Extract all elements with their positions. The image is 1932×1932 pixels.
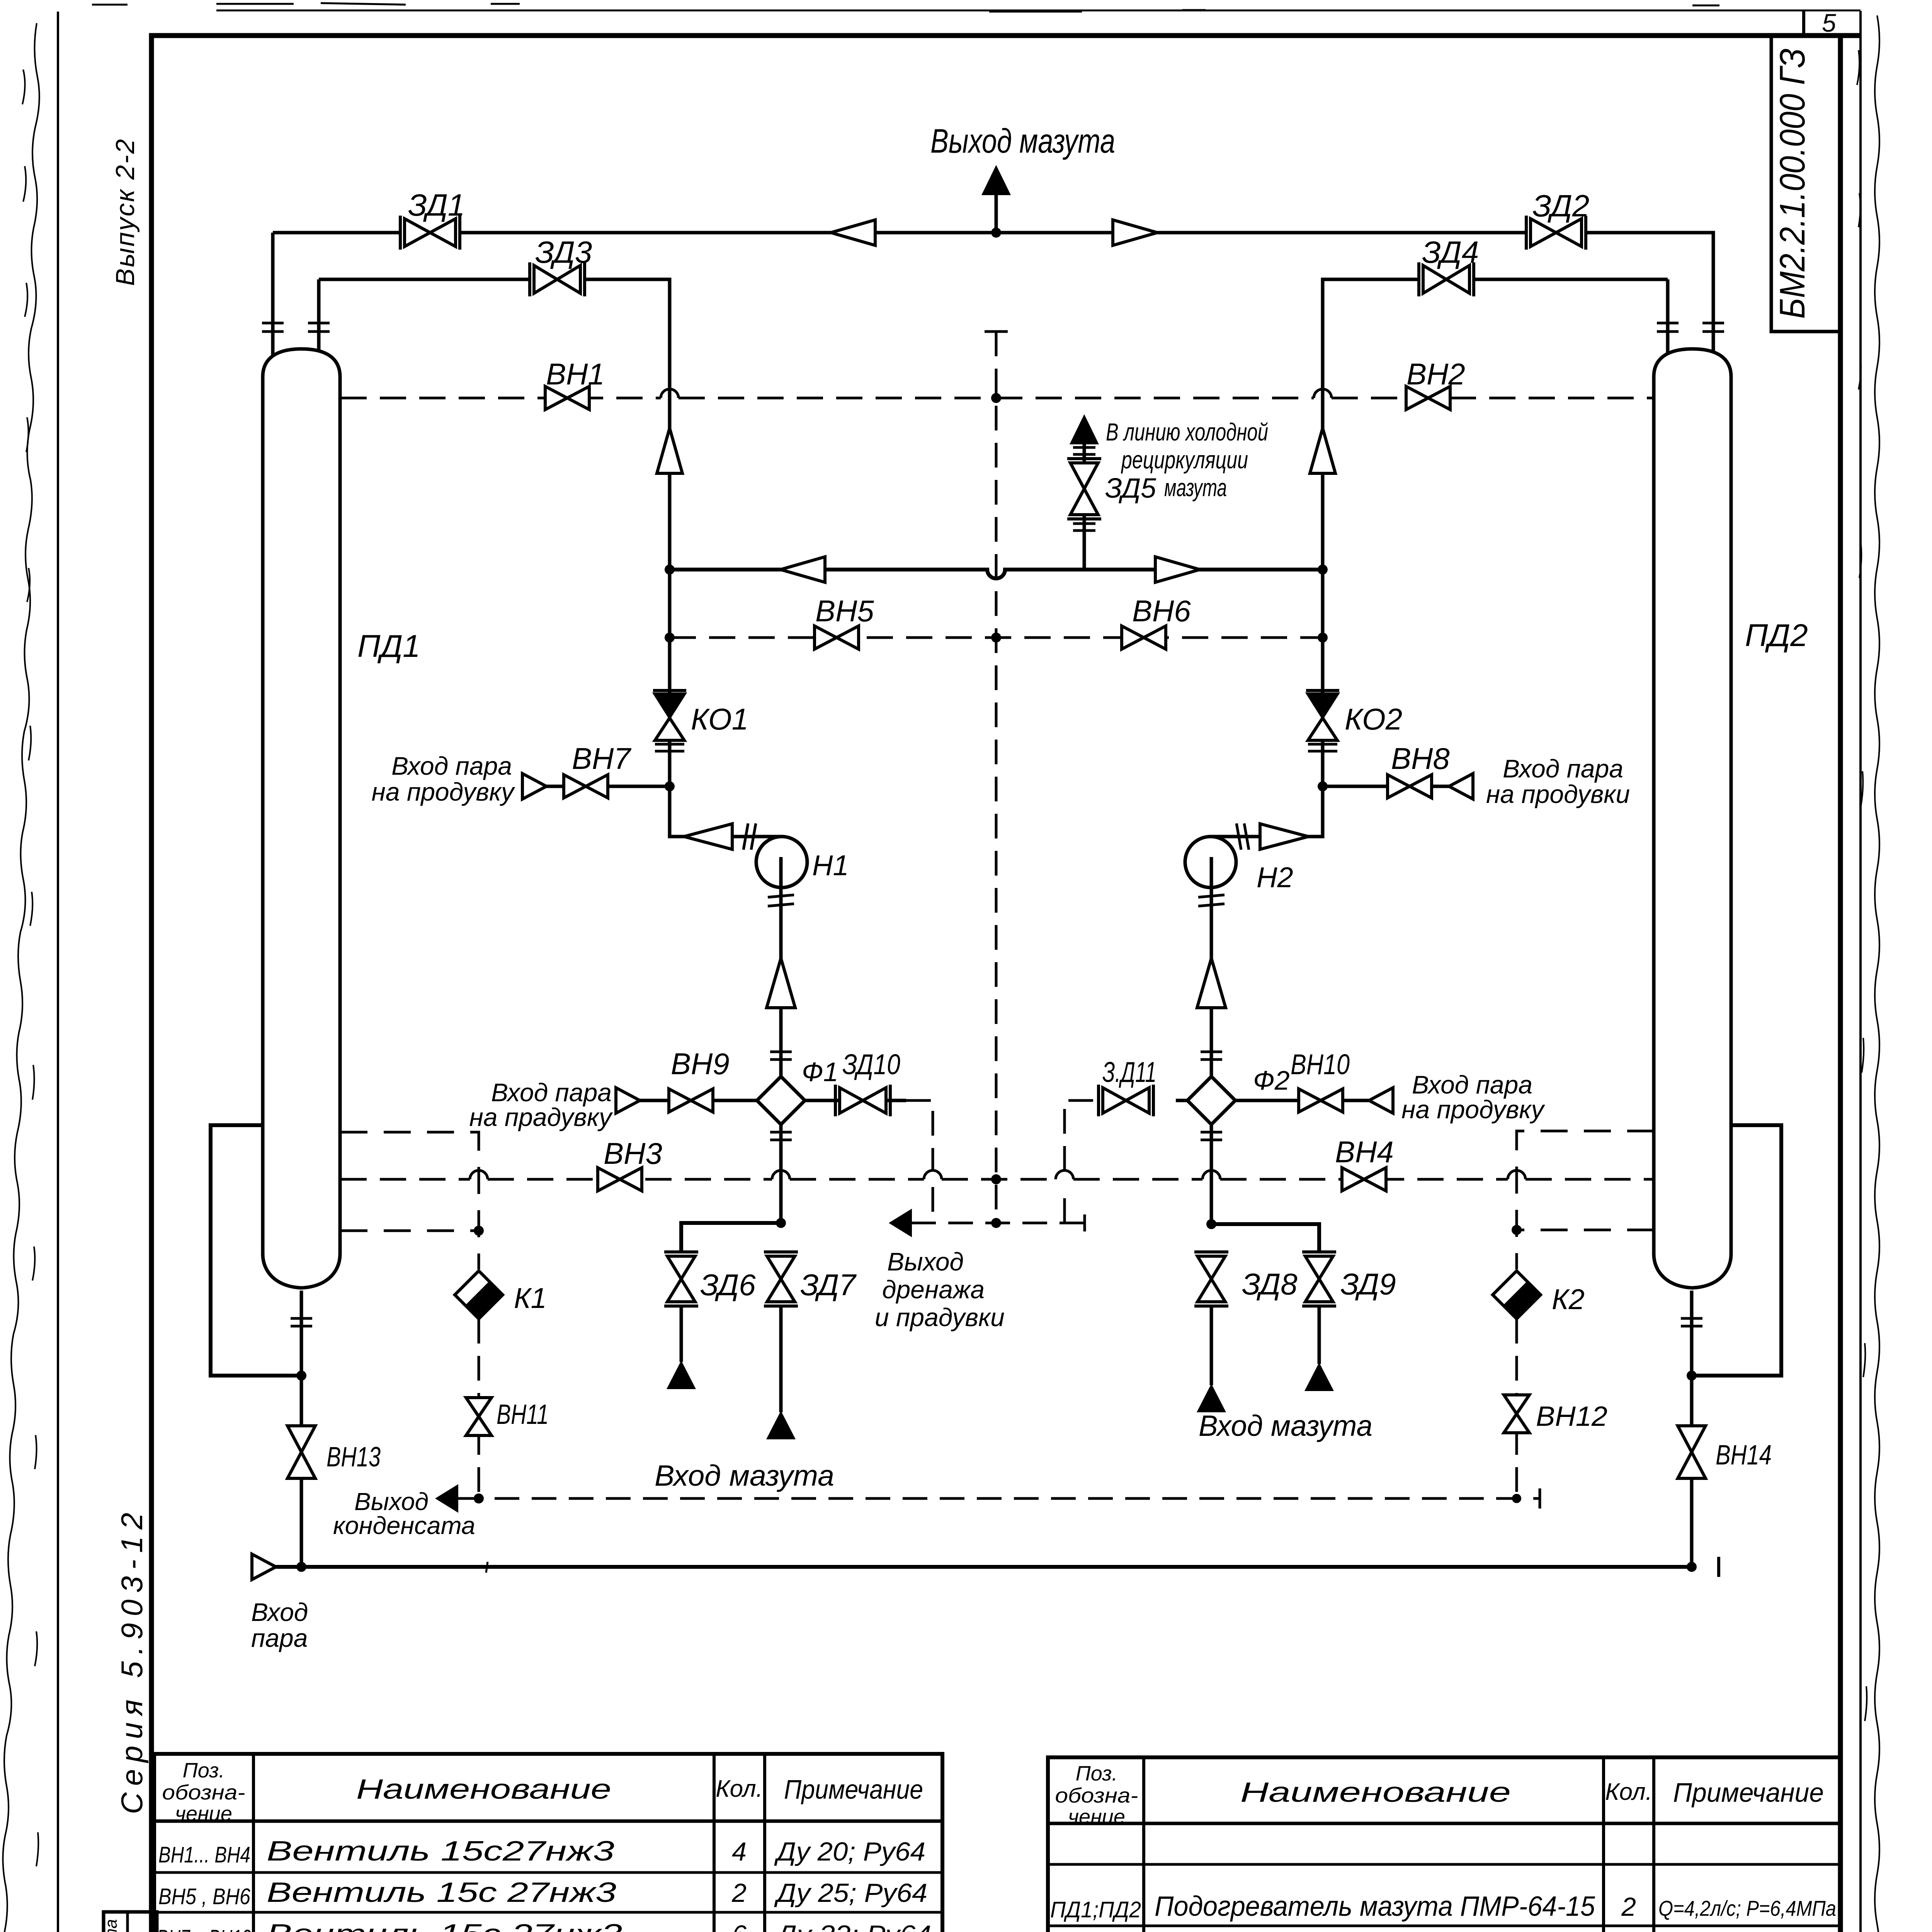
- label ВН10: [1291, 1048, 1350, 1080]
- label ЗД5: [1105, 473, 1156, 504]
- flange pump Н1 suction: [768, 895, 794, 906]
- svg-text:ЗД4: ЗД4: [1422, 235, 1479, 269]
- svg-text:Подогреватель мазута ПМР-64-1: Подогреватель мазута ПМР-64-15: [1155, 1891, 1595, 1922]
- svg-text:Поз.: Поз.: [1076, 1762, 1118, 1785]
- pipe left riser: [670, 279, 783, 837]
- arrow steam inlet (open right): [252, 1554, 276, 1580]
- pipe condensate outlet line: [457, 1497, 1540, 1500]
- node ВН14 bottom: [1687, 1562, 1697, 1572]
- label ВН9: [671, 1047, 730, 1081]
- terminator condensate line: [1539, 1488, 1541, 1509]
- svg-text:КО2: КО2: [1345, 702, 1402, 736]
- label Вход пара на продувку (right lower): [1401, 1070, 1545, 1124]
- terminator drain line: [1083, 1214, 1086, 1231]
- flange ПД2 left nozzle: [1657, 323, 1679, 332]
- pipe ПД1 bottom nozzle: [300, 1291, 303, 1376]
- svg-text:4: 4: [732, 1837, 747, 1866]
- check valve КО2: [1306, 690, 1339, 751]
- svg-text:обозна-: обозна-: [1055, 1784, 1138, 1807]
- label ЗД8: [1242, 1267, 1298, 1301]
- right table row ПД1;ПД2: [1050, 1891, 1836, 1922]
- svg-text:ВН10: ВН10: [1291, 1048, 1350, 1080]
- node condensate К2: [1512, 1494, 1521, 1503]
- flange ПД1 bottom: [291, 1318, 312, 1326]
- label ВН1: [546, 357, 605, 391]
- arrow condensate outlet (filled left): [435, 1484, 458, 1513]
- arrow to cold recirculation (filled up): [1070, 414, 1099, 444]
- check valve КО1: [653, 690, 686, 751]
- svg-text:ВН8: ВН8: [1391, 742, 1450, 776]
- svg-text:Кол.: Кол.: [716, 1776, 763, 1802]
- pipe ВН8 steam purge line: [1323, 785, 1473, 788]
- svg-text:ВН7: ВН7: [572, 742, 631, 776]
- pipe recirculation line: [670, 570, 1323, 578]
- pump Н2: [1185, 837, 1236, 888]
- svg-text:Примечание: Примечание: [1673, 1777, 1824, 1808]
- svg-text:ВН5 , ВН6: ВН5 , ВН6: [158, 1884, 251, 1909]
- label ВН4: [1335, 1135, 1394, 1169]
- node К1 branch: [474, 1226, 484, 1236]
- pipe fuel outlet header (ЗД1-ЗД2 line): [273, 233, 1713, 323]
- filter Ф2: [1187, 1077, 1235, 1124]
- flow arrow right on recirc line: [1155, 557, 1200, 582]
- svg-text:Вентиль 15с 27нж3: Вентиль 15с 27нж3: [267, 1877, 616, 1908]
- svg-text:БМ2.2.1.00.000 ГЗ: БМ2.2.1.00.000 ГЗ: [1773, 48, 1812, 319]
- vessel ПД2: [1654, 349, 1731, 1288]
- hop ВН4 line over ЗД11 branch: [1056, 1170, 1073, 1179]
- pipe К2 branch upper dashed: [1517, 1131, 1654, 1269]
- svg-text:обозна-: обозна-: [162, 1781, 245, 1804]
- label Вход пара на прадувку (left lower): [469, 1078, 613, 1131]
- pipe bypass ПД1 (ЗД3 line): [319, 279, 670, 294]
- gate valve ЗД10: [835, 1085, 890, 1116]
- svg-text:Вход мазута: Вход мазута: [1199, 1410, 1372, 1442]
- node left riser ВН5: [665, 633, 675, 643]
- svg-text:ПД1;ПД2: ПД1;ПД2: [1050, 1897, 1141, 1922]
- label ЗД10: [842, 1048, 900, 1080]
- label ВН13: [327, 1442, 381, 1473]
- label ВН7: [572, 742, 631, 776]
- svg-text:ВН4: ВН4: [1335, 1135, 1394, 1169]
- valve ВН10: [1299, 1089, 1343, 1112]
- svg-text:Вход: Вход: [251, 1598, 308, 1626]
- label ЗД11: [1102, 1056, 1156, 1088]
- svg-text:и прадувки: и прадувки: [875, 1303, 1005, 1332]
- svg-text:на продувки: на продувки: [1486, 780, 1630, 808]
- pipe ЗД10 drain branch: [805, 1099, 906, 1102]
- left margin text Выпуск 2-2: [111, 139, 140, 286]
- valve ВН3: [598, 1168, 642, 1191]
- pipe К2 to ВН12 dashed: [1515, 1319, 1518, 1498]
- node jacket ПД1: [296, 1371, 306, 1381]
- label ВН8: [1391, 742, 1450, 776]
- hop ВН4 line over Ф2 suction: [1202, 1170, 1220, 1179]
- svg-text:Н1: Н1: [812, 849, 849, 881]
- pipe ВН7 steam purge line: [522, 785, 670, 788]
- svg-text:Вход пара: Вход пара: [491, 1078, 612, 1107]
- hop ВН3 line over Ф1 suction: [772, 1170, 790, 1179]
- sheet number box: [1802, 10, 1805, 36]
- label ЗД3: [535, 235, 592, 269]
- node ВН13 bottom: [296, 1562, 306, 1572]
- gate valve ЗД7 (vertical): [764, 1252, 798, 1306]
- svg-text:2: 2: [1621, 1892, 1636, 1922]
- label ПД2: [1745, 618, 1808, 653]
- pipe ЗД5 branch: [1083, 442, 1086, 570]
- right components table grid: [1048, 1757, 1840, 1932]
- left torn paper edge: [0, 23, 39, 1932]
- svg-text:2: 2: [731, 1878, 747, 1908]
- svg-text:Наименование: Наименование: [356, 1774, 611, 1805]
- filter Ф1: [757, 1077, 805, 1124]
- top thin line: [92, 3, 1861, 12]
- svg-text:ВН3: ВН3: [604, 1136, 662, 1170]
- valve ВН5: [815, 626, 859, 649]
- node fuel manifold right: [1206, 1219, 1216, 1229]
- svg-text:Выпуск 2-2: Выпуск 2-2: [111, 139, 140, 286]
- node drain central: [991, 1218, 1001, 1228]
- flange ЗД5 upper: [1073, 447, 1095, 454]
- label КО2: [1345, 702, 1402, 736]
- valve ВН8: [1388, 775, 1432, 798]
- label ВН2: [1406, 357, 1465, 391]
- flange Ф2 bottom: [1201, 1132, 1222, 1140]
- pipe ЗД7 inlet: [779, 1306, 783, 1412]
- hop ВН3 line over ЗД10 branch: [924, 1170, 942, 1179]
- label Выход конденсата: [333, 1488, 475, 1539]
- left margin stamp boxes: [104, 1912, 157, 1932]
- left table row ВН1...ВН4: [158, 1836, 925, 1867]
- pipe ЗД6 inlet: [680, 1306, 683, 1362]
- svg-text:ВН6: ВН6: [1132, 594, 1191, 628]
- flange ПД1 right nozzle: [308, 323, 330, 332]
- pipe steam inlet bottom line: [275, 1565, 1692, 1569]
- svg-text:ЗД7: ЗД7: [800, 1268, 857, 1302]
- gate valve ЗД1: [400, 216, 460, 250]
- svg-text:Выход мазута: Выход мазута: [930, 122, 1115, 160]
- node right riser recirc: [1318, 565, 1328, 575]
- pipe ВН14 condensate drop: [1690, 1376, 1694, 1567]
- node ВН8 junction: [1318, 781, 1328, 791]
- left margin text Серия 5.903-12: [115, 1513, 149, 1814]
- right torn paper edge: [1857, 15, 1879, 1932]
- gate valve ЗД9 (vertical): [1302, 1252, 1336, 1306]
- svg-text:ПД1: ПД1: [357, 629, 420, 664]
- flange Ф2 top: [1201, 1052, 1222, 1060]
- pipe ПД2 dome right nozzle: [1712, 233, 1715, 363]
- label КО1: [691, 702, 748, 736]
- top right document stamp box: [1771, 36, 1840, 332]
- node right riser ВН6: [1318, 633, 1328, 643]
- flange ПД2 bottom: [1681, 1318, 1702, 1326]
- label ЗД9: [1340, 1267, 1396, 1301]
- svg-text:ВН9: ВН9: [671, 1047, 730, 1081]
- valve ВН4: [1342, 1168, 1386, 1191]
- svg-text:ВН1... ВН4: ВН1... ВН4: [158, 1842, 250, 1867]
- valve ВН7: [564, 775, 608, 798]
- label ВН14: [1716, 1440, 1772, 1471]
- gate valve ЗД4: [1419, 262, 1474, 296]
- right page edge line: [1859, 11, 1862, 1932]
- jacket line ПД1: [211, 1125, 301, 1376]
- label ВН5: [815, 594, 874, 628]
- svg-text:5: 5: [1822, 9, 1836, 37]
- gate valve ЗД11: [1099, 1085, 1153, 1116]
- svg-text:Наименование: Наименование: [1240, 1777, 1511, 1808]
- node fuel outlet junction: [991, 228, 1001, 238]
- flange ЗД5 lower: [1073, 524, 1095, 531]
- arrow steam inlet ВН10: [1369, 1088, 1393, 1113]
- pipe pump Н2 suction: [1210, 888, 1213, 1224]
- left table header: [162, 1759, 923, 1825]
- valve ВН11 (vertical): [466, 1398, 492, 1435]
- svg-text:Ф2: Ф2: [1253, 1065, 1290, 1095]
- flange pump Н1 discharge: [743, 823, 756, 850]
- pipe drainage outlet line: [911, 1222, 1085, 1225]
- pipe ПД1 dome left nozzle: [271, 233, 275, 363]
- svg-text:Вход мазута: Вход мазута: [655, 1459, 834, 1492]
- svg-text:ВН12: ВН12: [1536, 1401, 1607, 1432]
- pipe fuel outlet stub: [995, 193, 998, 233]
- label ЗД7: [800, 1268, 857, 1302]
- arrow fuel inlet ЗД6 (filled up): [667, 1361, 696, 1389]
- pipe К1 equalizer dashed: [340, 1230, 479, 1232]
- gate valve ЗД5 (vertical): [1067, 459, 1101, 519]
- svg-text:З.Д11: З.Д11: [1102, 1056, 1156, 1088]
- flow arrow up pump Н2 suction: [1197, 958, 1226, 1008]
- label Вход пара на продувку (left upper): [372, 752, 515, 806]
- valve ВН9: [669, 1089, 713, 1112]
- svg-text:К2: К2: [1552, 1283, 1585, 1315]
- label ЗД6: [700, 1268, 756, 1302]
- svg-text:ЗД3: ЗД3: [535, 235, 592, 269]
- terminator central header top: [985, 330, 1008, 333]
- svg-text:Вентиль 15с 27нж3: Вентиль 15с 27нж3: [267, 1919, 622, 1932]
- svg-text:Вход пара: Вход пара: [391, 752, 512, 780]
- svg-text:Ф1: Ф1: [802, 1057, 838, 1087]
- svg-text:ВН5: ВН5: [815, 594, 874, 628]
- flow arrow left on recirc line: [781, 557, 825, 582]
- hop ВН4 line over К2 branch: [1508, 1170, 1526, 1179]
- svg-text:Ду 32; Ру64: Ду 32; Ру64: [774, 1920, 931, 1932]
- label ЗД4: [1422, 235, 1479, 269]
- pipe ВН10 steam line to Ф2: [1235, 1099, 1393, 1102]
- left components table grid: [154, 1754, 942, 1932]
- node left riser recirc: [665, 565, 675, 575]
- steam trap К1: [455, 1271, 503, 1319]
- svg-text:Ду 20; Ру64: Ду 20; Ру64: [774, 1837, 925, 1866]
- svg-text:ПД2: ПД2: [1745, 618, 1808, 653]
- svg-text:ВН1: ВН1: [546, 357, 605, 391]
- label Н2: [1257, 861, 1293, 893]
- svg-text:дренажа: дренажа: [882, 1275, 985, 1304]
- valve ВН6: [1122, 626, 1166, 649]
- svg-text:6: 6: [732, 1920, 747, 1932]
- valve ВН13 (vertical): [287, 1426, 315, 1478]
- terminator steam line: [1717, 1557, 1720, 1577]
- label К2: [1552, 1283, 1585, 1315]
- label Выход мазута: [930, 122, 1115, 160]
- pipe ПД2 bottom nozzle: [1690, 1291, 1694, 1376]
- top right stamp text БМ2.2.1.00.000 ГЗ: [1773, 48, 1812, 319]
- label ВН6: [1132, 594, 1191, 628]
- node ВН3-ВН4 central: [991, 1174, 1001, 1184]
- svg-text:ЗД1: ЗД1: [408, 188, 465, 222]
- label В линию холодной рециркуляции мазута: [1106, 418, 1268, 502]
- flange ПД1 left nozzle: [262, 323, 284, 332]
- flange pump Н2 suction: [1198, 895, 1225, 906]
- arrow pump Н2 discharge: [1260, 824, 1308, 849]
- pipe К1 branch upper dashed: [340, 1132, 479, 1269]
- label ПД1: [357, 629, 420, 664]
- hop ВН2 line over right riser: [1314, 389, 1332, 398]
- svg-text:ЗД10: ЗД10: [842, 1048, 900, 1080]
- pipe ВН13 condensate drop: [300, 1376, 303, 1567]
- svg-text:В линию холодной: В линию холодной: [1106, 418, 1268, 446]
- label Ф2: [1253, 1065, 1290, 1095]
- svg-text:К1: К1: [514, 1282, 547, 1314]
- left table row ВН7...ВН12: [157, 1919, 931, 1932]
- left table row ВН5,ВН6: [158, 1877, 927, 1909]
- arrow fuel inlet ЗД7 (filled up): [766, 1411, 796, 1439]
- gate valve ЗД2: [1526, 216, 1586, 250]
- pipe ВН2 line (heater vent right): [996, 397, 1654, 400]
- gate valve ЗД8 (vertical): [1194, 1252, 1228, 1306]
- pipe fuel manifold right: [1211, 1224, 1319, 1252]
- label ВН11: [497, 1399, 549, 1430]
- gate valve ЗД6 (vertical): [664, 1252, 698, 1306]
- svg-text:ВН7... ВН12: ВН7... ВН12: [157, 1925, 251, 1932]
- svg-text:на продувку: на продувку: [372, 777, 515, 806]
- pump Н1: [756, 837, 807, 888]
- flow arrow right on outlet header: [1113, 220, 1157, 245]
- svg-text:Выход: Выход: [887, 1247, 964, 1276]
- node vent header junction: [991, 393, 1001, 403]
- arrow steam inlet ВН7: [522, 774, 546, 799]
- label Ф1: [802, 1057, 838, 1087]
- pump Н2 internal line: [1210, 857, 1213, 888]
- right table header: [1055, 1762, 1824, 1828]
- pipe ЗД9 inlet: [1318, 1306, 1321, 1364]
- flow arrow up pump Н1 suction: [767, 958, 795, 1008]
- valve ВН14 (vertical): [1678, 1426, 1706, 1478]
- label Н1: [812, 849, 849, 881]
- pipe central drain header (vertical dashed): [995, 332, 998, 1223]
- arrow fuel inlet ЗД9 (filled up): [1304, 1362, 1334, 1391]
- label К1: [514, 1282, 547, 1314]
- arrow pump Н1 discharge: [684, 824, 732, 849]
- svg-text:Н2: Н2: [1257, 861, 1293, 893]
- svg-text:ВН13: ВН13: [327, 1442, 381, 1473]
- svg-text:чение: чение: [175, 1802, 232, 1825]
- svg-text:Поз.: Поз.: [183, 1759, 225, 1782]
- label Выход дренажа и прадувки: [875, 1247, 1005, 1332]
- pipe bypass ПД2 (ЗД4 line): [1323, 279, 1668, 294]
- label Вход пара на продувки (right upper): [1486, 754, 1630, 808]
- pipe pump Н1 suction: [779, 888, 783, 1223]
- pump Н1 internal line: [779, 857, 783, 888]
- pipe ПД2 dome left nozzle: [1666, 279, 1670, 363]
- steam trap К2: [1493, 1271, 1541, 1319]
- svg-text:пара: пара: [251, 1624, 308, 1652]
- svg-text:ЗД2: ЗД2: [1532, 189, 1589, 223]
- arrow fuel inlet ЗД8 (filled up): [1197, 1384, 1226, 1412]
- node fuel manifold left: [776, 1218, 786, 1228]
- margin stamp text Подпись и дата (upper): [102, 1919, 121, 1932]
- arrow steam inlet ВН9: [616, 1088, 640, 1113]
- valve ВН12 (vertical): [1504, 1395, 1529, 1433]
- svg-text:конденсата: конденсата: [333, 1512, 475, 1539]
- pipe ЗД11 drain dashes to corner: [1065, 1100, 1099, 1223]
- pipe ЗД10 drain dashes to corner: [906, 1100, 933, 1223]
- svg-text:Вход пара: Вход пара: [1412, 1070, 1532, 1099]
- node К2 branch: [1512, 1225, 1522, 1235]
- valve ВН2: [1406, 386, 1450, 410]
- svg-text:рециркуляции: рециркуляции: [1121, 446, 1248, 474]
- arrow drainage outlet (filled left): [889, 1209, 912, 1237]
- pipe ВН5-ВН6 drain line: [670, 636, 1323, 639]
- flange Ф1 top: [770, 1052, 792, 1060]
- sheet number 5: [1822, 9, 1836, 37]
- svg-text:Ду 25; Ру64: Ду 25; Ру64: [774, 1878, 927, 1908]
- pipe ЗД8 inlet: [1210, 1306, 1213, 1385]
- label ЗД1: [408, 188, 465, 222]
- flow arrow up on left riser: [657, 428, 682, 473]
- hop ВН1 line over left riser: [661, 389, 679, 398]
- svg-text:ЗД5: ЗД5: [1105, 473, 1156, 504]
- pipe ПД1 dome right nozzle: [317, 279, 321, 363]
- pipe right riser: [1209, 279, 1323, 837]
- svg-text:ЗД9: ЗД9: [1340, 1267, 1396, 1301]
- pipe ВН1 line (heater vent left): [340, 397, 996, 400]
- svg-text:на продувку: на продувку: [1401, 1095, 1545, 1124]
- svg-text:Вентиль 15с27нж3: Вентиль 15с27нж3: [267, 1836, 614, 1867]
- label ЗД2: [1532, 189, 1589, 223]
- vessel ПД1: [263, 349, 340, 1288]
- arrow steam inlet ВН8: [1449, 774, 1473, 799]
- flow arrow up on right riser: [1310, 428, 1335, 473]
- pipe fuel manifold left: [681, 1223, 781, 1252]
- svg-text:ВН2: ВН2: [1406, 357, 1465, 391]
- pipe К1 to ВН11 dashed: [478, 1319, 480, 1498]
- svg-text:чение: чение: [1068, 1805, 1125, 1828]
- arrow fuel outlet (filled up): [981, 165, 1011, 195]
- svg-text:Q=4,2л/с; Р=6,4МПа: Q=4,2л/с; Р=6,4МПа: [1658, 1896, 1836, 1920]
- pipe К2 equalizer dashed: [1517, 1229, 1654, 1231]
- left page edge line: [57, 12, 59, 1932]
- hop ВН3 line over К1 branch: [470, 1170, 488, 1179]
- flange pump Н2 discharge: [1236, 823, 1249, 850]
- jacket line ПД2: [1692, 1125, 1781, 1376]
- node condensate К1: [474, 1493, 484, 1503]
- gate valve ЗД3: [530, 262, 585, 296]
- svg-text:на прадувку: на прадувку: [469, 1103, 613, 1131]
- svg-text:ВН11: ВН11: [497, 1399, 549, 1430]
- valve ВН1: [545, 386, 589, 410]
- pipe ВН9 steam line to Ф1: [616, 1099, 757, 1102]
- pipe ЗД11 drain branch: [1176, 1099, 1187, 1102]
- node jacket ПД2: [1687, 1371, 1697, 1381]
- label ВН3: [604, 1136, 662, 1170]
- svg-text:КО1: КО1: [691, 702, 748, 736]
- label Вход мазута (left): [655, 1459, 834, 1492]
- svg-text:мазута: мазута: [1164, 474, 1227, 502]
- pipe ВН3-ВН4 drain line: [340, 1178, 1654, 1181]
- svg-text:ЗД6: ЗД6: [700, 1268, 756, 1302]
- flange ПД2 right nozzle: [1702, 323, 1724, 332]
- label ВН12: [1536, 1401, 1607, 1432]
- svg-text:ВН14: ВН14: [1716, 1440, 1772, 1471]
